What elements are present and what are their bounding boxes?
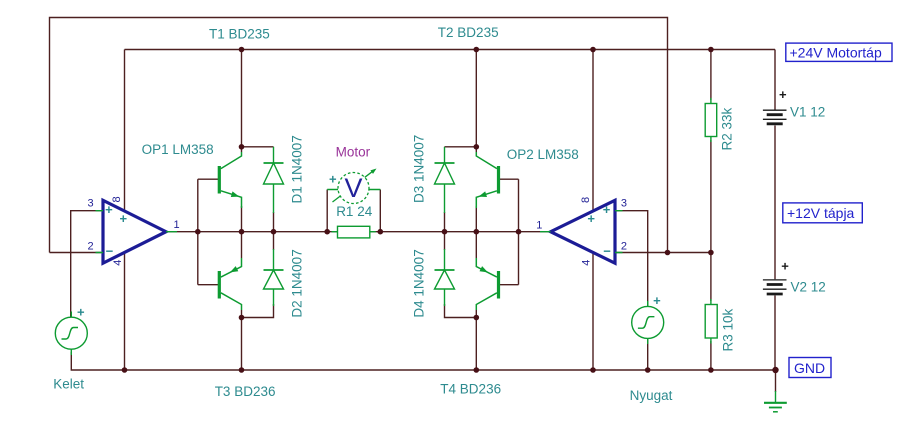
svg-text:+: + xyxy=(653,293,661,308)
wire D2 bottom stub xyxy=(242,304,274,318)
svg-text:+: + xyxy=(329,172,337,187)
wire +24V rail xyxy=(125,49,776,51)
node middle rail D1/D2 xyxy=(271,229,277,235)
svg-text:2: 2 xyxy=(621,241,627,253)
wire D4 upper lead xyxy=(444,232,446,250)
svg-text:D2 1N4007: D2 1N4007 xyxy=(290,249,305,317)
battery V1 xyxy=(763,110,787,124)
node T1 collector / D1 xyxy=(239,144,245,150)
node T4 collector / D4 xyxy=(474,315,480,321)
voltage generator Nyugat xyxy=(632,301,664,344)
wire OP1 pin2 lead xyxy=(50,252,102,254)
wire D4 bottom stub xyxy=(445,304,477,318)
wire battery column V1 to V2 xyxy=(774,126,776,280)
svg-text:4: 4 xyxy=(581,260,593,266)
svg-text:+: + xyxy=(603,202,611,217)
node R2/R3 reference xyxy=(708,250,714,256)
diode D2 xyxy=(264,249,284,306)
resistor R2 xyxy=(705,98,717,142)
wire T2 base lead xyxy=(499,178,519,180)
wire T2 emitter to middle rail xyxy=(475,206,477,232)
op-amp OP2 xyxy=(536,197,627,266)
svg-text:Kelet: Kelet xyxy=(53,377,84,392)
svg-text:D3 1N4007: D3 1N4007 xyxy=(412,135,427,203)
svg-text:OP2 LM358: OP2 LM358 xyxy=(507,147,579,162)
wire voltmeter left drop xyxy=(326,190,328,232)
svg-text:+: + xyxy=(120,211,128,226)
resistor R1 xyxy=(332,226,376,238)
svg-text:3: 3 xyxy=(621,198,627,210)
svg-text:R1 24: R1 24 xyxy=(336,204,373,219)
wire T4 collector drop xyxy=(475,310,477,370)
svg-text:T4 BD236: T4 BD236 xyxy=(440,382,501,397)
node ground rail / R3 xyxy=(708,367,714,373)
wire T3 base lead xyxy=(198,284,218,286)
net label +24V Motortap box xyxy=(786,43,892,61)
transistor T1 xyxy=(218,152,242,208)
svg-text:Motor: Motor xyxy=(336,145,371,160)
node middle rail T2/T4 xyxy=(474,229,480,235)
net label +12V tapja box xyxy=(783,203,863,223)
node voltmeter right xyxy=(378,229,384,235)
node feedback / reference net xyxy=(665,250,671,256)
wire R3 bottom lead xyxy=(710,341,712,370)
svg-text:3: 3 xyxy=(88,198,94,210)
wire OP1 power pin8/pin4 column xyxy=(124,50,126,371)
wire T1 base lead xyxy=(198,178,218,180)
svg-text:8: 8 xyxy=(111,196,123,202)
svg-text:Nyugat: Nyugat xyxy=(630,388,673,403)
svg-text:+: + xyxy=(77,305,85,320)
node ground rail / OP1 power xyxy=(122,367,128,373)
node middle rail T1/T3 xyxy=(239,229,245,235)
svg-text:−: − xyxy=(603,244,611,259)
diode D4 xyxy=(435,249,455,306)
svg-text:+: + xyxy=(105,202,113,217)
wire T2 collector feed xyxy=(475,50,477,153)
wire D1 top stub xyxy=(242,146,274,148)
wire D3 lower lead xyxy=(444,212,446,232)
svg-text:1: 1 xyxy=(536,220,542,232)
svg-text:R3 10k: R3 10k xyxy=(721,308,736,351)
wire R2-R3 middle column xyxy=(710,140,712,301)
wire R2 top lead xyxy=(710,50,712,101)
battery V2 xyxy=(763,280,787,294)
wire V2 to ground rail xyxy=(774,296,776,371)
node T3 collector / D2 xyxy=(239,315,245,321)
wire T4 emitter feed xyxy=(475,232,477,258)
transistor T2 xyxy=(476,152,500,208)
svg-text:+12V tápja: +12V tápja xyxy=(787,205,855,221)
svg-text:1: 1 xyxy=(173,219,179,231)
op-amp OP1 xyxy=(88,196,180,265)
transistor T4 xyxy=(476,258,500,310)
diode D3 xyxy=(435,147,455,213)
svg-text:+24V Motortáp: +24V Motortáp xyxy=(790,45,882,61)
wire T3 collector drop xyxy=(241,310,243,370)
svg-text:V2 12: V2 12 xyxy=(791,280,826,295)
wire feedback loop from OP1 pin2 to OP2 side xyxy=(50,18,668,253)
svg-text:+: + xyxy=(587,211,595,226)
node ground rail / GND xyxy=(772,367,778,373)
node ground rail / Nyugat xyxy=(645,367,651,373)
svg-text:T3 BD236: T3 BD236 xyxy=(215,384,276,399)
net label GND box xyxy=(789,358,831,378)
diode D1 xyxy=(264,147,284,213)
voltage generator Kelet xyxy=(55,312,87,356)
voltmeter across motor R1 xyxy=(327,169,380,204)
svg-text:GND: GND xyxy=(794,360,825,376)
wire Nyugat bottom lead xyxy=(647,338,649,370)
svg-text:D4 1N4007: D4 1N4007 xyxy=(412,249,427,317)
wire GND stem xyxy=(775,370,777,392)
node +24V rail / R2 xyxy=(708,47,714,53)
wire D2 upper lead xyxy=(273,232,275,250)
svg-text:2: 2 xyxy=(88,241,94,253)
svg-text:V: V xyxy=(344,173,362,203)
svg-text:+: + xyxy=(781,259,789,274)
wire bottom ground rail xyxy=(71,352,775,370)
svg-text:T2 BD235: T2 BD235 xyxy=(438,25,499,40)
svg-text:OP1 LM358: OP1 LM358 xyxy=(142,142,214,157)
wire OP2 pin3 net to Nyugat xyxy=(615,211,648,307)
resistor R3 xyxy=(705,299,717,344)
node ground rail / OP2 power xyxy=(590,367,596,373)
node +24V rail / OP2 power xyxy=(590,47,596,53)
svg-text:V1 12: V1 12 xyxy=(790,105,825,120)
wire OP2 output base column xyxy=(518,179,520,285)
wire OP1 output base column xyxy=(197,179,199,285)
wire voltmeter right drop xyxy=(379,190,381,232)
wire OP2 power pin8/pin4 column xyxy=(592,50,594,371)
wire middle rail (bridge output) xyxy=(166,231,551,233)
svg-text:R2 33k: R2 33k xyxy=(720,107,735,150)
wire OP2 pin2 reference net xyxy=(615,252,711,254)
node OP1 output xyxy=(195,229,201,235)
ground symbol xyxy=(764,391,787,412)
node voltmeter left xyxy=(324,229,330,235)
node middle rail D3/D4 xyxy=(442,229,448,235)
wire OP1 pin3 net to Kelet xyxy=(71,211,101,318)
svg-text:T1 BD235: T1 BD235 xyxy=(209,27,270,42)
node OP2 output xyxy=(516,229,522,235)
wire T4 base lead xyxy=(499,284,519,286)
wire V1 feed from +24V rail xyxy=(774,50,776,111)
node ground rail / T3 xyxy=(239,367,245,373)
wire D3 top stub xyxy=(445,146,477,148)
node ground rail / T4 xyxy=(474,367,480,373)
node T2 collector / D3 xyxy=(474,144,480,150)
svg-text:4: 4 xyxy=(112,260,124,266)
wire T3 emitter feed xyxy=(241,232,243,258)
svg-text:−: − xyxy=(106,244,114,259)
wire T1 collector feed xyxy=(241,50,243,153)
node +24V rail / T1 collector xyxy=(239,47,245,53)
svg-text:D1 1N4007: D1 1N4007 xyxy=(290,135,305,203)
wire D1 lower lead xyxy=(273,212,275,232)
wire T1 emitter to middle rail xyxy=(241,206,243,232)
node +24V rail / T2 collector xyxy=(474,47,480,53)
transistor T3 xyxy=(218,258,242,310)
svg-text:+: + xyxy=(779,87,787,102)
svg-text:8: 8 xyxy=(580,197,592,203)
